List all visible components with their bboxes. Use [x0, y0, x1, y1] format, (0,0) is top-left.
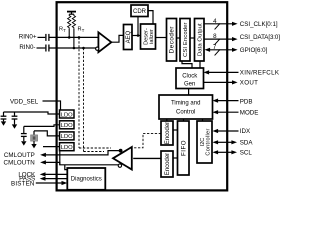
termination top bar: [67, 12, 76, 15]
svg-text:XOUT: XOUT: [240, 80, 258, 87]
wire LOCK: [46, 173, 68, 175]
svg-text:Data Output: Data Output: [197, 23, 203, 56]
ferrite bead FB1: [33, 131, 35, 135]
ground C3: [1, 121, 6, 125]
svg-text:RIN0-: RIN0-: [19, 44, 35, 51]
capacitor C1 (AC coupling, RIN0+): [46, 34, 49, 41]
svg-text:Clock: Clock: [182, 74, 198, 80]
wire Encoder lower to CML driver: [133, 157, 161, 159]
svg-text:T: T: [82, 28, 85, 33]
svg-text:PDB: PDB: [240, 98, 253, 105]
ground C4: [12, 124, 17, 128]
wire IDX: [218, 130, 239, 132]
svg-text:FIFO: FIFO: [180, 140, 187, 156]
bus slash CSI_DATA: [215, 39, 220, 45]
wire Clock Gen to Timing: [188, 89, 190, 96]
svg-text:SCL: SCL: [240, 150, 253, 157]
wire XIN/REFCLK: [209, 71, 239, 73]
wire GPIO bidirectional: [210, 49, 233, 51]
svg-text:Encoder: Encoder: [165, 122, 171, 144]
wire Timing to FIFO: [183, 119, 185, 121]
wire Encoder to FIFO: [173, 129, 178, 131]
svg-text:LDO: LDO: [61, 134, 73, 140]
block Deserializer: [141, 24, 156, 49]
wire Decoder to CSI Encoder: [177, 37, 181, 39]
capacitor C4: [12, 112, 18, 124]
ground C5: [21, 141, 26, 145]
inverting bubble U1: [96, 47, 99, 50]
wire dashed Encoder bypass: [134, 133, 161, 147]
svg-text:Control: Control: [176, 109, 195, 115]
block Decoder: [167, 19, 177, 62]
wire dashed bypass horizontal lower: [84, 151, 105, 153]
wire RIN0- to amplifier bubble: [49, 47, 96, 49]
wire MODE: [218, 111, 239, 113]
svg-text:CDR: CDR: [133, 9, 147, 15]
wire dashed bypass horizontal upper: [79, 147, 111, 149]
svg-text:Encoder: Encoder: [165, 153, 171, 175]
block Clock Gen: [176, 68, 204, 89]
junction dot CDR tap: [137, 34, 140, 37]
wire VDD_SEL to LDO: [43, 101, 61, 110]
svg-text:XIN/REFCLK: XIN/REFCLK: [240, 70, 280, 77]
block CDR: [131, 5, 148, 17]
svg-text:CSI Encoder: CSI Encoder: [183, 22, 189, 57]
junction dot CMLOUTP tap: [119, 149, 123, 153]
wire XOUT: [204, 81, 233, 83]
wire CMLOUTP: [46, 151, 121, 155]
svg-text:Gen: Gen: [184, 82, 195, 88]
svg-text:7: 7: [213, 44, 217, 51]
svg-text:GPIO[6:0]: GPIO[6:0]: [240, 47, 268, 54]
wire PASS: [46, 178, 68, 180]
svg-text:T: T: [63, 28, 66, 33]
wire U1 output to AEQ: [111, 35, 123, 42]
wire AEQ to Deserializer: [132, 35, 141, 37]
op-amp U2 CML driver: [113, 147, 132, 170]
svg-text:Timing and: Timing and: [171, 100, 200, 106]
wire RIN0- lead: [37, 47, 46, 49]
svg-text:LDO: LDO: [61, 112, 73, 118]
wire Data Output to Clock Gen: [199, 61, 201, 68]
wire Timing to Encoder: [166, 119, 168, 121]
svg-text:BISTEN: BISTEN: [11, 180, 35, 187]
resistor RT1: [68, 14, 71, 29]
block LDO4: [60, 143, 75, 151]
wire SCL: [218, 151, 232, 153]
svg-text:Diagnostics: Diagnostics: [71, 177, 102, 183]
block CSI Encoder: [180, 19, 190, 62]
wire CMLOUTN: [46, 162, 119, 164]
block I2C Controller: [197, 121, 212, 163]
wire RIN0+ to amplifier: [49, 36, 99, 38]
block Encoder lower: [161, 151, 173, 177]
wire FIFO to Encoder lower: [173, 157, 178, 159]
wire LDO3 external rail: [34, 131, 60, 136]
wire Deserializer to Decoder: [156, 37, 167, 39]
svg-text:LDO: LDO: [61, 123, 73, 129]
inverting bubble U2 CMLOUTN: [118, 164, 121, 167]
chip outline: [57, 2, 228, 190]
resistor RT2: [72, 14, 75, 29]
wire dashed bypass from RIN0+: [78, 37, 80, 148]
wire RT1 to RIN0+: [68, 29, 70, 37]
wire CDR down to AEQ-Deser net: [137, 17, 139, 36]
wire CSI Encoder to Data Output: [190, 37, 195, 39]
svg-text:Decoder: Decoder: [169, 26, 176, 53]
svg-text:CSI_DATA[3:0]: CSI_DATA[3:0]: [240, 34, 280, 41]
capacitor C2 (AC coupling, RIN0-): [46, 45, 49, 52]
svg-text:8: 8: [213, 33, 217, 40]
wire RIN0+ lead: [38, 36, 46, 38]
wire LDO4 external rail: [43, 146, 60, 148]
svg-text:Controller: Controller: [206, 128, 212, 155]
block Data Output: [195, 19, 205, 62]
block Diagnostics: [67, 168, 105, 190]
ground FB1: [31, 144, 36, 148]
svg-text:ializer: ializer: [149, 29, 155, 44]
wire SDA: [218, 141, 232, 143]
bus slash GPIO: [215, 49, 220, 55]
capacitor C5: [21, 126, 27, 141]
block Timing and Control: [159, 95, 213, 119]
op-amp U1 input equalizer: [98, 32, 111, 52]
block AEQ: [124, 25, 133, 50]
svg-text:LDO: LDO: [61, 145, 73, 151]
junction dot bypass tap -: [82, 47, 85, 50]
wire branch to Diagnostics: [65, 165, 68, 170]
wire RT2 to RIN0-: [73, 29, 75, 48]
svg-text:CSI_CLK[0:1]: CSI_CLK[0:1]: [240, 21, 278, 28]
wire CDR to Deserializer top: [148, 11, 153, 24]
wire PDB: [218, 100, 239, 102]
wire LDO1 external rail: [4, 112, 60, 114]
svg-text:MODE: MODE: [240, 109, 259, 116]
svg-text:VDD_SEL: VDD_SEL: [10, 98, 39, 105]
svg-text:CMLOUTN: CMLOUTN: [4, 159, 35, 166]
junction dot bypass tap +: [78, 36, 81, 39]
svg-text:CMLOUTP: CMLOUTP: [4, 152, 35, 159]
wire CSI_DATA out: [204, 38, 232, 40]
block Encoder upper: [161, 121, 173, 145]
junction dot RT1/RIN0+: [68, 36, 71, 39]
wire Timing to I2C: [202, 119, 204, 121]
capacitor C3: [1, 112, 7, 121]
svg-text:IDX: IDX: [240, 128, 250, 135]
block LDO3: [60, 132, 75, 140]
svg-text:RIN0+: RIN0+: [19, 34, 37, 41]
svg-text:AEQ: AEQ: [126, 30, 132, 43]
wire LDO4 drop: [59, 151, 61, 165]
svg-text:4: 4: [213, 18, 217, 25]
wire CSI Encoder to Clock Gen: [182, 61, 192, 68]
wire dashed bypass from RIN0-: [83, 48, 85, 152]
bus slash CSI_CLK: [215, 23, 220, 29]
block LDO1: [60, 110, 75, 118]
junction dot RT2/RIN0-: [73, 47, 76, 50]
block LDO2: [60, 121, 75, 129]
svg-text:SDA: SDA: [240, 140, 254, 147]
wire CSI_CLK out: [204, 23, 232, 25]
wire LDO2 external rail: [24, 125, 60, 127]
block FIFO: [178, 121, 190, 175]
wire BISTEN: [36, 182, 62, 184]
